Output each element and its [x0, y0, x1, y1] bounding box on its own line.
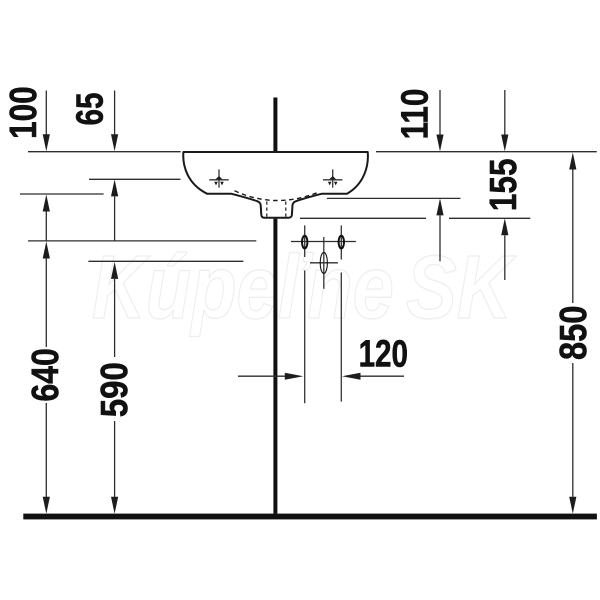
svg-text:590: 590 — [93, 362, 136, 417]
dimension 110: bottom arrow up to 110-line, stem down — [436, 198, 443, 261]
fixing hole oval left — [302, 236, 307, 249]
155 reference line — [449, 217, 530, 219]
svg-text:100: 100 — [2, 86, 44, 139]
svg-text:155: 155 — [482, 158, 524, 211]
washbasin side-view outline — [183, 152, 368, 218]
rim reference line left segment — [28, 151, 181, 153]
dashed drain recess left wall — [266, 202, 268, 217]
drain hole crosshair line — [310, 262, 338, 264]
dimension 100: bottom arrow up to 100-line, stem to 640-line — [43, 195, 50, 241]
dimension 120: left line with right-pointing arrow — [238, 373, 303, 380]
svg-text:65: 65 — [69, 93, 111, 126]
watermark KúpeľneSK — [92, 238, 517, 338]
fixing hole centerline left — [304, 225, 306, 403]
640 reference line — [28, 240, 256, 242]
dimension 155: top stem and arrow down to rim — [501, 90, 508, 152]
590 reference line — [88, 260, 243, 262]
rim reference line right segment — [376, 151, 597, 153]
drain hole oval — [320, 252, 327, 273]
svg-text:640: 640 — [25, 348, 67, 402]
floor line — [23, 514, 597, 520]
svg-text:120: 120 — [359, 333, 408, 375]
dashed inner bowl line — [235, 191, 320, 201]
tap hole marker right — [323, 169, 342, 187]
65 reference line — [89, 178, 181, 180]
wire: wall/drain axis vertical pipe (lower segment) — [273, 219, 277, 514]
dimension 100: top stem and arrow down to rim — [43, 91, 50, 152]
dimension 65: top stem and arrow down to rim — [111, 91, 118, 152]
dimension 120: right line with left-pointing arrow — [342, 373, 404, 380]
110 reference line — [327, 197, 461, 199]
svg-text:110: 110 — [394, 89, 436, 140]
100 reference line — [20, 193, 104, 195]
dashed drain recess right wall — [285, 202, 287, 217]
fixing hole centerline right — [340, 225, 342, 401]
dimension 110: top stem and arrow down to rim — [436, 90, 443, 152]
dimension 590: top arrow up to 590-line, stem down to floor arrow — [111, 262, 118, 514]
tap hole marker left — [209, 169, 228, 187]
drain bottom extension line — [300, 217, 426, 219]
dimension 155: bottom arrow up to 155-line, stem down — [501, 218, 508, 280]
fixing hole oval right — [339, 236, 344, 249]
dimension 640: top arrow up to 640-line, stem down to floor arrow — [43, 242, 50, 514]
drain hole centerline — [323, 237, 325, 289]
dimension 65: bottom arrow up to 65-line, stem to 640-line — [111, 179, 118, 241]
svg-text:850: 850 — [551, 306, 594, 361]
svg-text:Kúpeľne: Kúpeľne — [92, 238, 394, 338]
wire: wall/drain axis vertical pipe (upper segment) — [273, 98, 277, 152]
fixing holes crosshair line — [291, 241, 356, 243]
svg-text:SK: SK — [406, 238, 517, 338]
dimension 850: top arrow up to rim line, stem, bottom arrow down to floor — [569, 153, 576, 514]
